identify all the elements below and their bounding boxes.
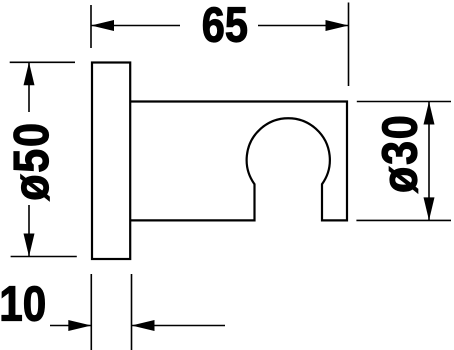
svg-text:ø50: ø50	[4, 121, 59, 201]
svg-text:65: 65	[202, 0, 248, 53]
svg-text:10: 10	[0, 277, 46, 332]
svg-text:ø30: ø30	[372, 114, 427, 194]
